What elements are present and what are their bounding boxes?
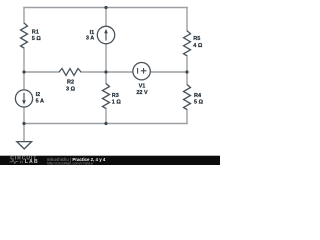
svg-text:LAB: LAB	[25, 159, 39, 165]
svg-text:R3: R3	[112, 93, 119, 99]
svg-text:5 Ω: 5 Ω	[194, 100, 204, 106]
svg-text:5 Ω: 5 Ω	[32, 36, 42, 42]
svg-text:4 Ω: 4 Ω	[193, 43, 203, 49]
svg-text:R4: R4	[194, 93, 202, 99]
svg-text:3 A: 3 A	[86, 36, 94, 42]
svg-text:http://circuitlab.com/c7ah1e: http://circuitlab.com/c7ah1e	[47, 161, 93, 165]
svg-text:R2: R2	[67, 80, 74, 86]
svg-text:3 Ω: 3 Ω	[66, 86, 76, 92]
svg-text:I2: I2	[36, 92, 41, 98]
svg-text:V1: V1	[139, 83, 146, 89]
svg-text:22 V: 22 V	[136, 90, 148, 96]
svg-text:5 A: 5 A	[36, 98, 44, 104]
svg-text:1 Ω: 1 Ω	[112, 100, 122, 106]
svg-text:R5: R5	[193, 36, 200, 42]
svg-text:R1: R1	[32, 30, 39, 36]
